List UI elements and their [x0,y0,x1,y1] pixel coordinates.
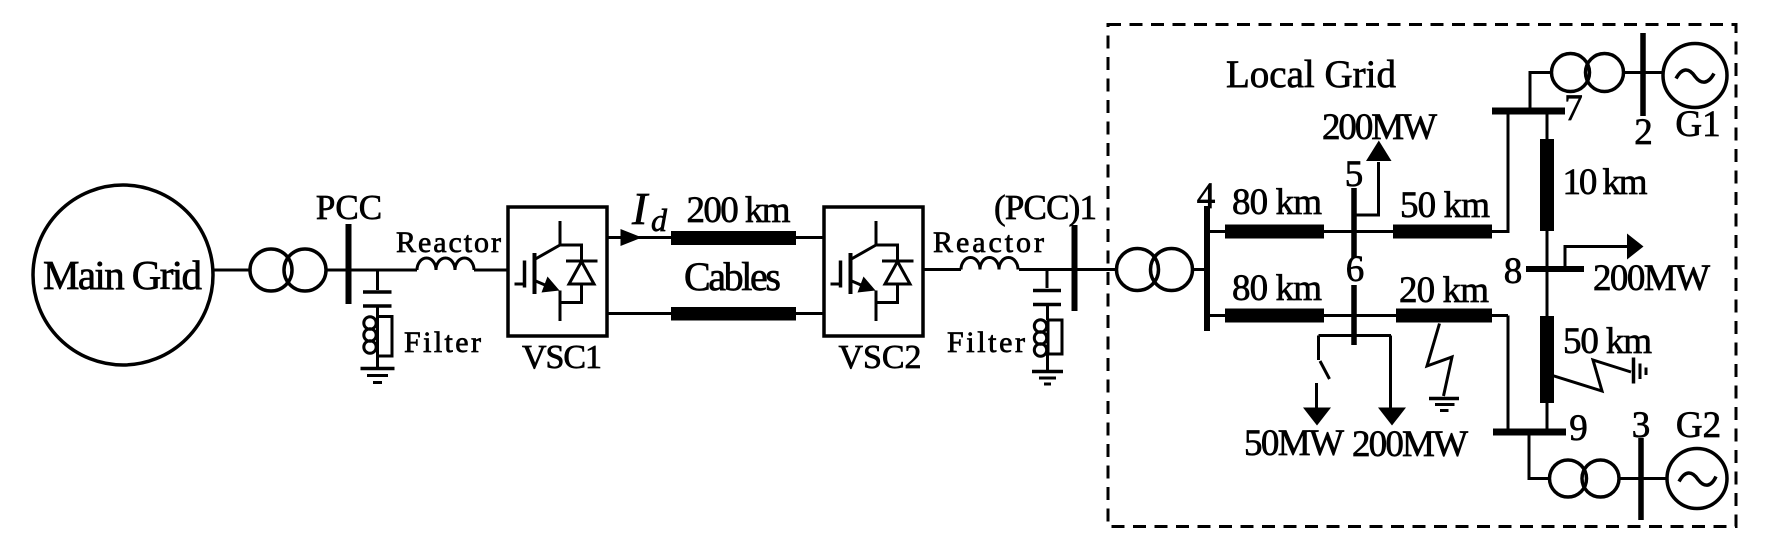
cable 50 km row1 [1393,225,1492,239]
cable top [671,231,796,245]
svg-text:8: 8 [1504,251,1523,292]
filter F2 inductor [1034,320,1046,356]
filter F1 capacitor [363,292,392,306]
wire cable bottom to VSC2 [796,312,824,315]
main grid source circle [33,185,213,365]
bus 4 [1204,206,1210,331]
bus 8 [1526,266,1584,272]
svg-text:G1: G1 [1675,104,1720,145]
filter F1 inductor [364,317,376,353]
cable 20 km [1396,309,1492,323]
filter F1 branch wire [376,270,379,290]
wire T1 to VSC1 [326,269,508,272]
svg-text:I: I [631,183,650,234]
svg-text:Reactor: Reactor [933,226,1044,259]
svg-text:Local Grid: Local Grid [1226,53,1397,96]
load arrow 200MW at bus 8 [1565,247,1627,270]
svg-text:9: 9 [1569,408,1588,449]
current direction arrow Id [621,229,643,246]
svg-text:3: 3 [1632,405,1651,446]
svg-text:Reactor: Reactor [396,226,501,259]
svg-text:50MW: 50MW [1244,423,1344,464]
wire 80km cable to bus5 [1324,230,1352,233]
transformer T3 [1552,54,1624,92]
cable 50 km right [1540,316,1554,403]
wire T2 to bus 4 [1193,268,1208,271]
wire to 200MW load [1389,336,1392,410]
load arrow 200MW at bus 5 [1356,162,1379,215]
converter VSC2 box [824,207,923,336]
svg-text:4: 4 [1197,176,1216,217]
wire cable top to VSC2 [796,236,824,239]
IGBT with freewheeling diode inside VSC1 [515,221,598,321]
wire 80km row2 to bus6 [1324,314,1352,317]
wire 50km cable to bus7 [1492,111,1508,233]
wire T3 to G1 [1624,71,1665,74]
load bracket at bus 6 [1319,334,1392,337]
fault ground bottom [1429,397,1459,401]
wire bus4 to 80km cable row1 [1210,230,1225,233]
transformer T4 [1550,460,1620,497]
svg-text:VSC1: VSC1 [522,339,602,376]
fault lightning at 50km cable [1553,360,1632,391]
cable 80 km row2 [1225,309,1324,323]
wire T4 to G2 [1619,477,1667,480]
load arrow 50MW [1303,408,1331,426]
svg-text:80 km: 80 km [1232,268,1322,309]
fault lightning at 20km cable [1427,324,1452,397]
svg-text:200MW: 200MW [1322,107,1437,148]
wire bus7 to transformer T3 [1530,73,1552,112]
bus 6 [1351,285,1357,345]
wire bus4 to 80km cable row2 [1210,314,1225,317]
svg-text:50 km: 50 km [1563,321,1652,362]
transformer T1 [250,249,326,291]
filter F1 resistor [376,308,379,317]
bus 2 [1640,33,1646,116]
svg-text:10 km: 10 km [1563,162,1648,203]
wire VSC1 dc bottom [607,312,671,315]
local grid dashed boundary [1108,25,1736,527]
generator G1 [1663,44,1727,108]
svg-text:PCC: PCC [316,188,382,227]
reactor L1 coil [417,258,474,270]
line 7-8 wire [1546,111,1549,266]
wire VSC1 dc top [607,236,671,239]
svg-text:200MW: 200MW [1352,424,1468,465]
svg-text:(PCC)1: (PCC)1 [994,188,1097,227]
filter F2 branch wire [1046,270,1049,289]
bus (PCC)1 [1072,225,1078,311]
svg-text:2: 2 [1634,112,1653,153]
bus 3 [1638,438,1644,520]
svg-text:200 km: 200 km [687,190,791,231]
cable bottom [671,307,796,321]
bus 9 [1493,429,1566,436]
bus 5 [1351,188,1357,258]
svg-text:VSC2: VSC2 [839,339,922,376]
svg-text:Cables: Cables [684,254,781,299]
filter F2 resistor [1046,306,1049,320]
ground of filter F2 [1046,354,1049,370]
svg-text:d: d [651,202,668,238]
svg-text:G2: G2 [1676,405,1721,446]
wire 20km cable to bus9 [1492,316,1508,433]
wire VSC2 to transformer T2 [923,268,1117,271]
switch to 50MW load [1317,336,1330,410]
wire bus6 to 20km cable [1356,314,1396,317]
bus 7 [1492,108,1565,115]
reactor L2 coil [961,258,1018,270]
svg-text:20 km: 20 km [1399,270,1489,311]
ground of filter F1 [376,356,379,367]
load arrow 200MW bottom [1378,408,1406,426]
svg-text:200MW: 200MW [1593,258,1710,299]
wire bus5 to 50km cable [1356,230,1393,233]
svg-text:6: 6 [1346,249,1365,290]
cable 80 km row1 [1225,225,1324,239]
cable 10 km [1540,139,1554,231]
IGBT with freewheeling diode inside VSC2 [831,221,914,321]
svg-text:Main Grid: Main Grid [43,252,202,298]
svg-text:5: 5 [1345,154,1364,195]
bus PCC [346,224,352,304]
converter VSC1 box [508,207,607,336]
wire main grid to transformer T1 [213,269,250,272]
filter F2 capacitor [1033,291,1061,305]
svg-text:7: 7 [1564,88,1583,129]
fault ground right [1632,358,1636,384]
wire bus8 to 50km cable [1546,272,1549,316]
svg-text:80 km: 80 km [1232,182,1322,223]
wire 50km cable to bus9 [1546,403,1549,432]
transformer T2 [1117,249,1193,291]
generator G2 [1667,449,1727,509]
svg-text:50 km: 50 km [1400,185,1490,226]
wire bus9 to transformer T4 [1529,432,1550,479]
